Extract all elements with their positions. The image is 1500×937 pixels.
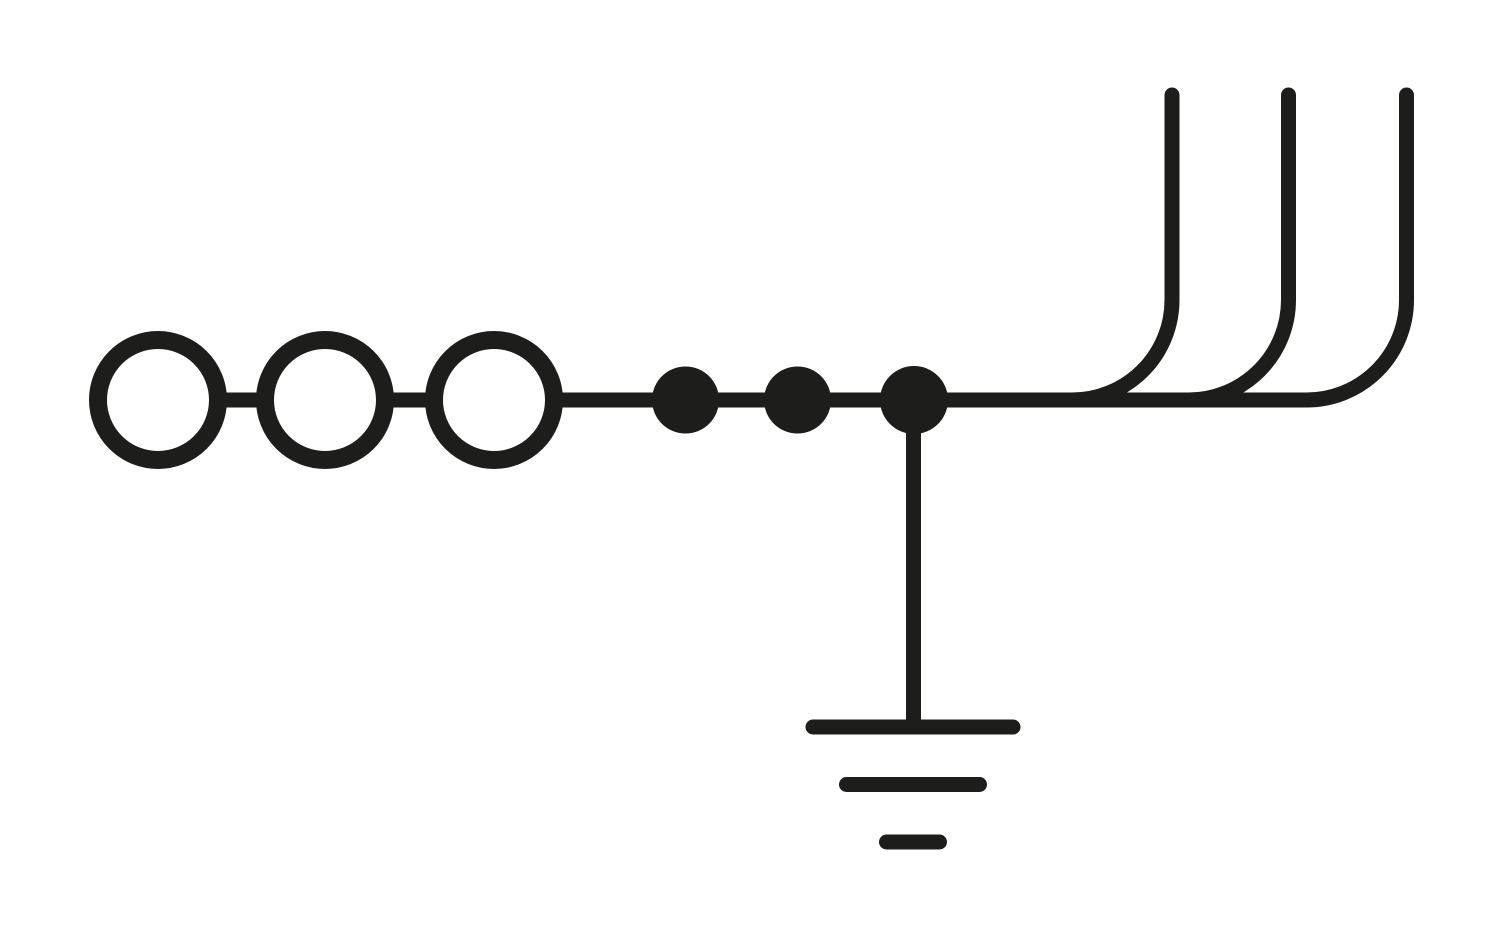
wire: curved branch 2 [1189, 95, 1289, 400]
terminal circle 2 [265, 340, 385, 460]
ground [813, 727, 1013, 842]
terminal circle 3 [434, 340, 554, 460]
wire: vertical ground lead [906, 400, 921, 727]
junction dot 1 [652, 367, 719, 434]
junction dot 2 [764, 367, 831, 434]
junction dot 3 [880, 366, 948, 434]
wire: curved branch 1 [1072, 95, 1172, 400]
terminal circle 1 [98, 340, 218, 460]
wire: main horizontal bus [158, 393, 1307, 408]
wire: curved branch 3 [1307, 95, 1407, 400]
